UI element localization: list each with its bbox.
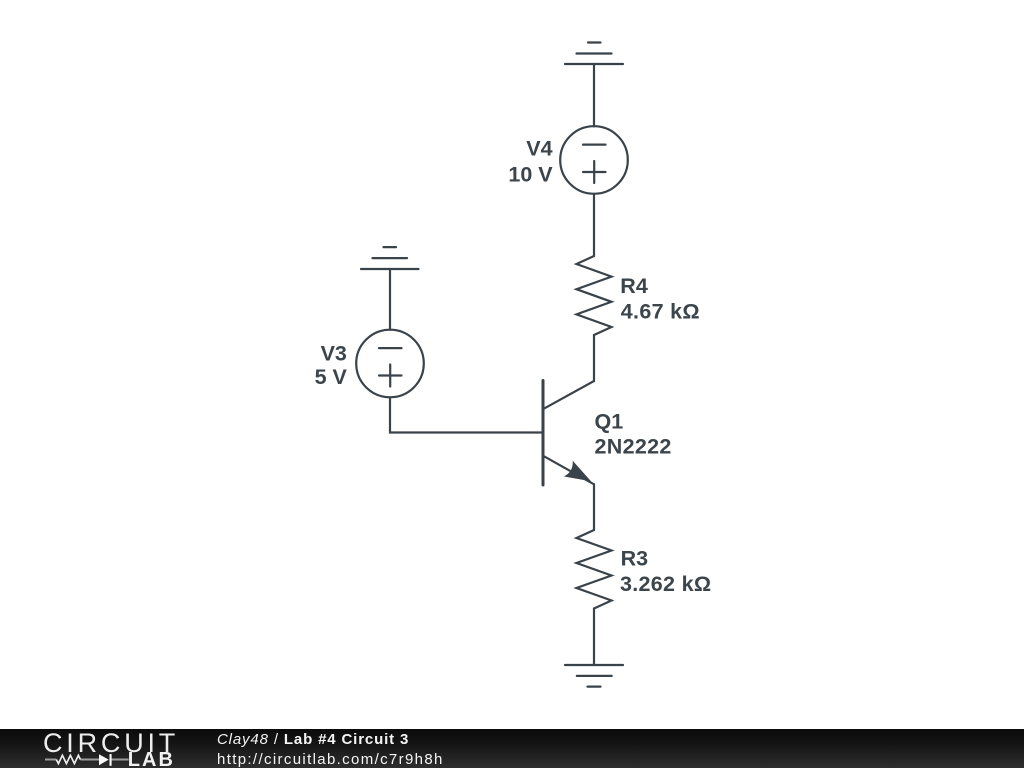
svg-text:3.262 kΩ: 3.262 kΩ (620, 572, 711, 596)
transistor Q1 (543, 381, 594, 486)
wire R4 to Q1 collector (593, 335, 595, 381)
svg-text:10 V: 10 V (508, 163, 553, 187)
wire ground to V3 (389, 269, 391, 330)
resistor R4 (577, 256, 612, 335)
svg-text:4.67 kΩ: 4.67 kΩ (621, 300, 700, 324)
wire V3 to Q1 base (390, 397, 543, 432)
svg-text:V3: V3 (321, 341, 347, 365)
wire Q1 emitter to R3 (593, 484, 595, 530)
svg-text:2N2222: 2N2222 (595, 435, 672, 459)
ground (bottom) (565, 665, 623, 687)
wire V4 to R4 (593, 194, 595, 256)
resistor R3 (577, 530, 612, 609)
voltage source V3 (356, 330, 424, 398)
svg-text:LAB: LAB (128, 749, 175, 768)
svg-text:V4: V4 (526, 137, 552, 161)
svg-text:5 V: 5 V (315, 365, 348, 389)
wire top ground to V4 (593, 64, 595, 126)
ground (above V3) (361, 247, 419, 269)
ground (top, above V4) (565, 43, 623, 65)
svg-text:Q1: Q1 (595, 410, 624, 434)
CircuitLab logo (0, 729, 200, 768)
svg-text:R3: R3 (621, 546, 649, 570)
footer text (217, 732, 409, 747)
footer bar (0, 729, 1024, 768)
voltage source V4 (560, 126, 628, 194)
svg-text:R4: R4 (620, 274, 648, 298)
wire R3 to bottom ground (593, 609, 595, 666)
